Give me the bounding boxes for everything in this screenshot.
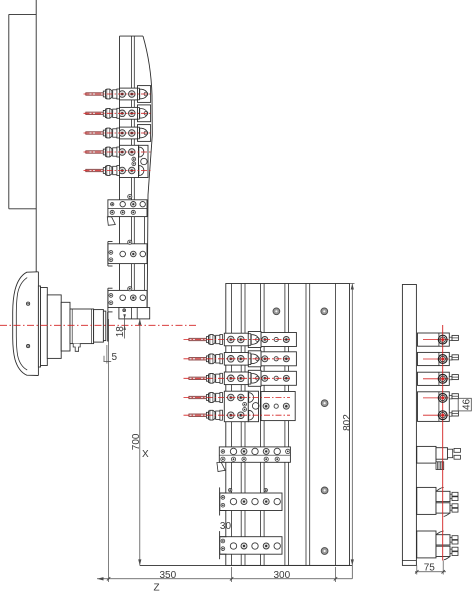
plate row P1 collet spacer [216, 335, 220, 343]
tool row T3 collet spacer [113, 129, 117, 137]
dim 802 [342, 284, 355, 579]
svg-text:300: 300 [274, 570, 291, 581]
svg-text:5: 5 [112, 352, 118, 363]
tool row T3 holder screws [119, 130, 135, 137]
svg-text:30: 30 [220, 521, 232, 532]
tool row T5 centerline [84, 170, 151, 172]
plate rows P4 P5 merged holder [224, 391, 259, 422]
plate row P3 bracket [224, 370, 261, 386]
spindle flange [38, 286, 47, 367]
tool row T5 collet spacer [113, 166, 117, 174]
dim 18 [115, 314, 126, 338]
dim 5 [104, 345, 118, 364]
svg-text:75: 75 [424, 562, 436, 573]
right tool R1 crosshair [423, 339, 449, 341]
rail screw above B3 [128, 287, 132, 291]
spindle housing [13, 272, 39, 376]
plate row P3 drill [189, 377, 207, 379]
right tool R2 fitting [449, 355, 458, 360]
plate row P3 collet spacer [216, 374, 220, 382]
tool rows T4 T5 merged holder [120, 145, 149, 177]
svg-text:Z: Z [154, 583, 160, 592]
plate row P3 rear clamp [261, 371, 296, 385]
tool row T2 centerline [84, 112, 151, 114]
svg-text:18: 18 [115, 326, 126, 338]
rail screws above E [229, 488, 232, 491]
right block C [417, 531, 458, 560]
rail screw above B1 [128, 195, 132, 199]
plate row P5 centerline [184, 414, 291, 416]
tool row T2 bracket [120, 105, 151, 122]
plate row P5 holder screws [228, 412, 245, 419]
plate row P4 holder screws [228, 394, 245, 401]
dim 46 box [458, 398, 472, 411]
plate row P3 holder screws [228, 375, 245, 382]
E flange [220, 487, 227, 515]
tool mounting plate [226, 284, 350, 566]
plate screw S2 [321, 308, 328, 315]
plate row P2 collet spacer [216, 355, 220, 363]
clamp block E [220, 493, 282, 511]
right tool R5 fitting [449, 411, 458, 416]
plate row P2 holder screws [228, 356, 245, 363]
right tool R4 fitting [449, 394, 458, 399]
clamp block D [219, 447, 290, 462]
plate screw S1 [273, 308, 280, 315]
plate row P4 collet spacer [216, 393, 220, 401]
right tool R3 crosshair [423, 378, 449, 380]
plate row P2 bracket [224, 351, 261, 367]
B2 flange [108, 242, 113, 267]
tool row T2 collet spacer [113, 109, 117, 117]
right tool R4 crosshair [423, 397, 449, 399]
right tool R2 crosshair [423, 358, 449, 360]
spindle housing bolt bottom [27, 345, 30, 348]
right tool R4 drill end [438, 394, 447, 403]
tool row T1 collet spacer [113, 90, 117, 98]
plate row P2 drill [189, 358, 207, 360]
tool row T5 holder screws [119, 167, 135, 174]
plate row P3 centerline [184, 377, 291, 379]
right tool R1 block [418, 333, 450, 346]
tool row T1 bracket [120, 86, 151, 103]
right tool R2 drill end [438, 355, 447, 364]
plate row P4 centerline [184, 397, 291, 399]
plate row P1 bracket [224, 332, 261, 348]
clamp block B3 [108, 290, 147, 307]
plate screw S4 [321, 487, 328, 494]
plate screw S3 [321, 400, 328, 407]
tool row T4 holder screws [119, 149, 135, 156]
plate row P1 rear clamp [261, 333, 296, 347]
spindle cylinder d [94, 310, 104, 343]
plate row P5 drill [189, 414, 207, 416]
plate screw S5 [321, 548, 328, 555]
svg-text:802: 802 [342, 414, 353, 431]
spindle centerline [0, 324, 198, 326]
right tool R2 block [418, 352, 450, 365]
tool row T3 bracket [120, 125, 151, 142]
tool row T1 drill [86, 93, 104, 95]
spindle cylinder a [47, 295, 61, 359]
spindle nose cap [103, 311, 105, 341]
plate row P1 holder screws [228, 336, 245, 343]
tool row T2 drill [86, 112, 104, 114]
mid screws between T4 T5 [132, 157, 136, 166]
plate row P1 drill [189, 338, 207, 340]
right tool R3 block [418, 372, 450, 385]
clamp block B2 [108, 244, 147, 264]
right tool R1 fitting [449, 335, 458, 340]
plate row P5 collet spacer [216, 411, 220, 419]
gang plate base block [119, 308, 150, 319]
plate row P1 centerline [184, 339, 291, 341]
plate row P4 drill [189, 396, 207, 398]
baseline extension [140, 564, 353, 566]
plate rows P4 P5 rear clamp [261, 392, 295, 421]
tool tip plane centerline [442, 325, 444, 561]
dim 700 X [131, 319, 149, 566]
right plate body [402, 285, 416, 566]
gang plate side view body [120, 36, 153, 319]
spindle key tab [73, 344, 80, 352]
right tool R5 drill end [438, 411, 447, 420]
clamp block F [220, 537, 282, 555]
dim 75 [415, 561, 446, 575]
stop tab under B1 [107, 217, 115, 225]
tool row T1 centerline [84, 93, 151, 95]
plate row P2 centerline [184, 358, 291, 360]
tool row T4 centerline [84, 151, 151, 153]
right tool R1 drill end [438, 335, 447, 344]
F flange [220, 531, 227, 559]
tool row T3 centerline [84, 132, 151, 134]
svg-text:700: 700 [131, 433, 142, 450]
svg-text:X: X [142, 449, 149, 460]
tool row T4 collet spacer [113, 148, 117, 156]
svg-text:350: 350 [160, 570, 177, 581]
mid screws between P4 P5 [243, 402, 247, 411]
rail screw above B2 [128, 240, 132, 244]
right tool R3 drill end [438, 374, 447, 383]
right block A [417, 446, 461, 463]
right block A fins [436, 462, 444, 470]
machine column outline [9, 0, 36, 272]
right tool R5 crosshair [423, 414, 449, 416]
tool row T1 holder screws [119, 91, 135, 98]
spindle cylinder c [70, 309, 94, 344]
spindle housing bolt top [27, 302, 30, 305]
dim 350 300 Z [97, 567, 352, 592]
spindle cylinder b [61, 302, 70, 351]
plate row P2 rear clamp [261, 352, 296, 366]
tool row T5 drill [86, 169, 104, 171]
plate face line [107, 312, 109, 342]
B3 flange [108, 288, 113, 312]
tool row T4 drill [86, 151, 104, 153]
clamp block B1 [108, 200, 147, 217]
tool row T3 drill [86, 132, 104, 134]
right tools R4 R5 block [418, 392, 450, 422]
extension line left [108, 319, 110, 582]
svg-text:46: 46 [462, 398, 473, 410]
right block B [417, 487, 458, 516]
right tool R3 fitting [449, 375, 458, 380]
tool row T2 holder screws [119, 110, 135, 117]
stop tab under D [217, 463, 225, 472]
